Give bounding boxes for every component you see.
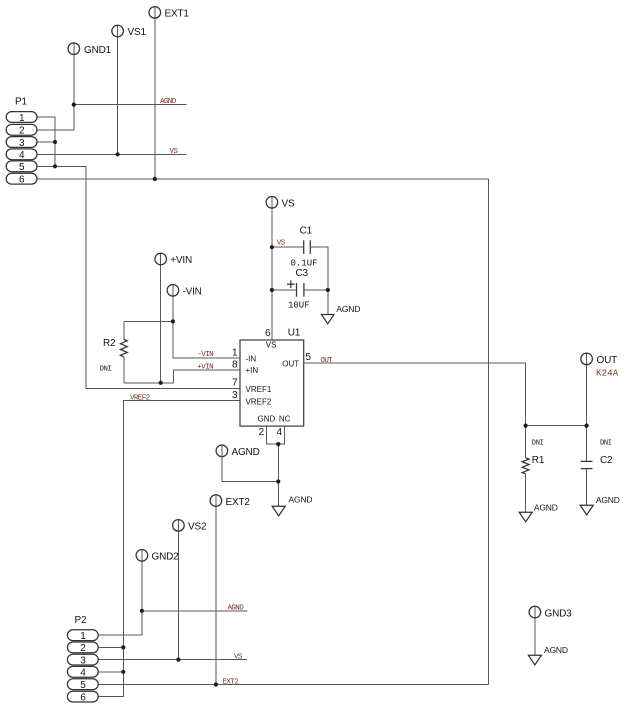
svg-text:GND2: GND2: [152, 552, 180, 563]
svg-text:1: 1: [80, 631, 86, 642]
wire GND2 vertical to P2 pin1: [98, 550, 142, 636]
svg-text:4: 4: [276, 427, 282, 438]
wire +VIN vertical: [160, 253, 162, 383]
wire R2 body leads: [123, 321, 125, 339]
svg-text:EXT2: EXT2: [226, 497, 251, 508]
capacitor C1: [291, 226, 318, 269]
wire -VIN vertical and to U1 pin1: [173, 285, 240, 359]
svg-text:GND1: GND1: [84, 45, 112, 56]
svg-text:6: 6: [80, 692, 86, 703]
svg-text:AGND: AGND: [596, 495, 620, 505]
flag GND3: [529, 606, 572, 619]
flag OUT: [581, 353, 619, 378]
svg-text:5: 5: [306, 352, 312, 363]
wire loop right vertical: [488, 179, 490, 685]
flag EXT1: [149, 7, 189, 20]
svg-text:K24A: K24A: [596, 368, 619, 378]
svg-text:VREF2: VREF2: [246, 397, 272, 406]
svg-text:1: 1: [232, 347, 238, 358]
wire OUT from U1 pin5: [304, 363, 587, 426]
flag GND1: [68, 43, 112, 56]
resistor R2: [100, 338, 128, 374]
ground triangle below U1: [272, 495, 312, 516]
svg-text:3: 3: [232, 390, 238, 401]
wire VS2 vertical: [177, 520, 179, 660]
svg-text:VS2: VS2: [188, 522, 207, 533]
flag VS2: [173, 520, 207, 533]
wire OUT flag vertical: [586, 353, 588, 426]
svg-text:6: 6: [265, 328, 271, 339]
svg-text:EXT1: EXT1: [165, 9, 190, 20]
wire P1 pin1-pin3-pin5 tie: [37, 117, 55, 166]
flag AGND: [216, 445, 259, 458]
svg-text:VREF1: VREF1: [246, 385, 272, 394]
svg-text:VS1: VS1: [128, 27, 147, 38]
ground triangle below C3: [321, 304, 360, 324]
flag VS1: [112, 25, 147, 38]
wire R1 leads: [525, 426, 527, 458]
connector P1: [6, 97, 37, 186]
wire EXT1 vertical: [154, 7, 156, 179]
svg-text:OUT: OUT: [597, 355, 618, 366]
flag +VIN: [155, 253, 192, 266]
svg-text:-VIN: -VIN: [183, 287, 202, 298]
svg-text:C2: C2: [600, 455, 613, 466]
wire C2 leads: [586, 426, 588, 462]
svg-text:NC: NC: [279, 415, 291, 424]
svg-text:+IN: +IN: [246, 366, 259, 375]
wire C1 right lead and down: [310, 247, 328, 314]
svg-text:VS: VS: [277, 240, 286, 248]
ground triangle below C2: [580, 495, 620, 515]
capacitor C2: [581, 439, 613, 468]
wire C1 left lead: [272, 246, 304, 248]
svg-text:C1: C1: [300, 226, 313, 237]
wire VREF2 from U1 pin3 to P2: [98, 401, 240, 697]
junction dots: [72, 103, 76, 107]
wire AGND flag branch: [222, 445, 278, 482]
svg-text:+VIN: +VIN: [170, 255, 192, 266]
svg-text:VS: VS: [266, 340, 277, 349]
wire P1 pin6 long horizontal: [37, 178, 489, 180]
wire GND1 vertical to P1 pin2: [37, 43, 74, 130]
svg-text:U1: U1: [288, 328, 301, 339]
wire EXT2 vertical: [215, 495, 217, 685]
svg-text:R2: R2: [103, 338, 116, 349]
svg-text:2: 2: [258, 427, 264, 438]
svg-text:AGND: AGND: [289, 495, 313, 505]
svg-text:5: 5: [80, 680, 86, 691]
svg-text:VS: VS: [170, 148, 179, 156]
wire VS bottom horizontal from P2 pin3: [98, 659, 247, 661]
op-amp U1: [232, 328, 312, 439]
wire EXT2 bottom horizontal: [98, 684, 489, 686]
svg-text:DNI: DNI: [532, 439, 544, 447]
svg-text:AGND: AGND: [336, 304, 360, 314]
svg-text:P2: P2: [75, 615, 87, 626]
svg-text:5: 5: [19, 162, 25, 173]
svg-text:6: 6: [19, 175, 25, 186]
svg-text:DNI: DNI: [600, 439, 612, 447]
svg-text:3: 3: [80, 655, 86, 666]
wire P1 pin5 to U1 pin7 VREF1: [37, 166, 240, 388]
wire VS flag vertical to U1 pin6: [271, 197, 273, 341]
svg-text:R1: R1: [532, 455, 545, 466]
flag -VIN: [167, 285, 202, 298]
svg-text:P1: P1: [15, 97, 27, 108]
svg-text:-VIN: -VIN: [197, 351, 213, 359]
wire AGND top horizontal: [74, 104, 187, 106]
svg-text:8: 8: [232, 359, 238, 370]
wire U1 pin2 pin4 to ground: [266, 426, 284, 444]
svg-text:1: 1: [19, 113, 25, 124]
wire C3 right lead: [304, 289, 328, 291]
svg-text:3: 3: [19, 138, 25, 149]
wire C3 left lead: [272, 289, 297, 291]
svg-text:4: 4: [19, 150, 25, 161]
svg-text:AGND: AGND: [534, 503, 558, 513]
wire P2 pin4 stub: [98, 671, 123, 673]
svg-text:2: 2: [80, 643, 86, 654]
wire R2 top lead: [124, 320, 173, 322]
svg-text:DNI: DNI: [100, 365, 112, 373]
svg-text:GND3: GND3: [545, 608, 573, 619]
svg-text:-IN: -IN: [246, 355, 257, 364]
capacitor C3: [287, 268, 310, 311]
svg-text:GND: GND: [258, 415, 276, 424]
wire R2 bottom lead to U1 pin8: [124, 370, 240, 383]
flag VS: [266, 197, 295, 210]
wire P1 pin3 stub: [37, 141, 55, 143]
svg-text:AGND: AGND: [160, 98, 177, 106]
svg-text:AGND: AGND: [232, 447, 260, 458]
wire VS1 vertical: [117, 25, 119, 154]
ground triangle below GND3: [528, 645, 567, 665]
connector P2: [67, 615, 98, 704]
svg-text:AGND: AGND: [544, 645, 568, 655]
wire GND3 vertical: [534, 606, 536, 655]
svg-text:AGND: AGND: [228, 605, 245, 613]
resistor R1: [522, 439, 545, 473]
svg-text:VS: VS: [282, 199, 295, 210]
svg-text:C3: C3: [296, 268, 309, 279]
svg-text:VS: VS: [234, 654, 243, 662]
flag GND2: [136, 550, 179, 563]
svg-text:7: 7: [232, 378, 238, 389]
svg-text:VREF2: VREF2: [130, 395, 150, 403]
svg-text:OUT: OUT: [282, 360, 299, 369]
svg-text:2: 2: [19, 126, 25, 137]
svg-text:10UF: 10UF: [288, 301, 310, 311]
ground triangle below R1: [519, 503, 558, 522]
svg-text:EXT2: EXT2: [223, 678, 239, 686]
wire P2 pin2 stub: [98, 646, 123, 648]
flag EXT2: [210, 495, 250, 508]
svg-text:0.1UF: 0.1UF: [291, 258, 318, 268]
svg-text:4: 4: [80, 668, 86, 679]
wire VS top horizontal from P1 pin4: [37, 153, 187, 155]
svg-text:OUT: OUT: [321, 357, 334, 365]
wire AGND bottom horizontal: [142, 610, 248, 612]
svg-text:+VIN: +VIN: [197, 363, 213, 371]
